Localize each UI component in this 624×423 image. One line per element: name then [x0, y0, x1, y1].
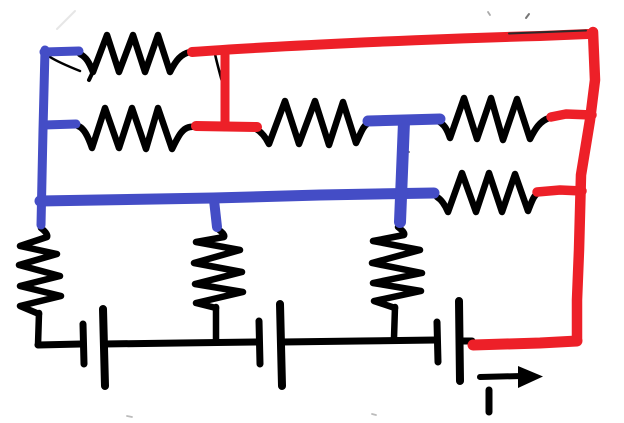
stray overshoot hook at R1 first valley — [89, 63, 97, 80]
wire blue bottom bus — [40, 193, 434, 201]
resistor R7 (vertical, middle branch) — [194, 229, 243, 308]
stray mark speck top right 2 — [526, 14, 529, 18]
wire blue top stub — [44, 51, 79, 52]
resistor R3 (row 2 middle horizontal) — [252, 101, 370, 145]
wire R6 bottom lead — [38, 313, 39, 345]
battery B3 negative plate (short) — [437, 322, 438, 362]
stray mark speck bottom left — [127, 416, 132, 417]
wire bottom bus segment 1 — [38, 344, 81, 345]
wire red bottom horizontal — [473, 341, 577, 345]
arrow current direction shaft — [480, 376, 522, 377]
stray mark speck top right 1 — [488, 12, 490, 15]
wire red row2 right stub — [551, 114, 592, 117]
battery B3 positive plate (long) — [459, 301, 460, 381]
stray mark top left tick — [57, 11, 75, 29]
wire red top horizontal — [192, 34, 588, 52]
resistor R8 (vertical, right branch) — [372, 227, 422, 308]
wire red row2 bar — [196, 126, 257, 127]
wire blue row2 stub — [44, 124, 76, 125]
arrow current direction head — [518, 366, 543, 388]
wire bottom bus segment 4 — [460, 338, 472, 345]
label I — [486, 390, 493, 412]
wire bottom bus segment 2 — [104, 342, 257, 344]
wire blue left vertical — [41, 50, 45, 225]
wire blue row2 T vertical down to R8 — [400, 122, 404, 222]
wire bottom bus segment 3 — [282, 340, 436, 342]
battery B1 negative plate (short) — [83, 324, 84, 364]
resistor R4 (row 2 right horizontal) — [438, 98, 549, 140]
wire blue row2 T bar — [368, 119, 440, 121]
wire R8 bottom lead — [394, 307, 395, 338]
stray mark speck center — [406, 150, 409, 152]
stray pen mark along red T vertical — [215, 54, 226, 97]
wire red T vertical — [221, 50, 230, 127]
stray pen mark under top-left blue corner — [50, 57, 80, 71]
wire blue drop to R7 — [214, 200, 217, 227]
resistor R6 (vertical, left branch) — [19, 228, 61, 314]
battery B2 positive plate (long) — [280, 304, 282, 386]
resistor R2 (row 2 left horizontal) — [78, 108, 198, 149]
resistor R1 (row 1 horizontal) — [80, 35, 190, 72]
wire red right vertical — [577, 32, 595, 340]
wire red row3 right stub — [537, 190, 582, 192]
wire R7 bottom lead — [213, 307, 220, 340]
resistor R5 (row 3 right horizontal) — [437, 173, 540, 212]
battery B2 negative plate (short) — [259, 321, 260, 364]
battery B1 positive plate (long) — [103, 309, 105, 386]
stray mark speck bottom center — [372, 414, 376, 415]
stray pen fringe above red top wire — [509, 31, 586, 34]
